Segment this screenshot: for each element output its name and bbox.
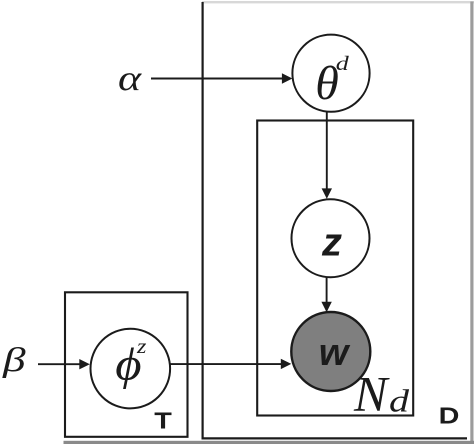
wire beta to phi [38,359,90,369]
plate D [202,2,468,439]
right border line [470,2,473,444]
wire z to w [321,278,331,313]
svg-text:D: D [439,402,460,429]
wire phi to w [171,359,292,369]
svg-text:T: T [154,407,172,434]
node phi^z [91,329,171,409]
bottom border line [64,441,474,444]
plate N_d [257,121,413,416]
svg-text:d: d [336,53,349,75]
wire theta to z [322,112,332,199]
node theta^d [292,35,369,112]
top border line [202,1,474,3]
node z [292,199,370,277]
svg-text:w: w [319,332,351,374]
wire alpha to theta [151,73,292,83]
plate T [65,292,188,437]
svg-text:z: z [321,221,342,265]
node w [291,312,370,391]
svg-text:d: d [389,383,410,418]
label N_d [353,366,410,422]
svg-text:z: z [136,334,147,357]
svg-text:α: α [118,58,142,98]
svg-text:β: β [2,340,26,378]
